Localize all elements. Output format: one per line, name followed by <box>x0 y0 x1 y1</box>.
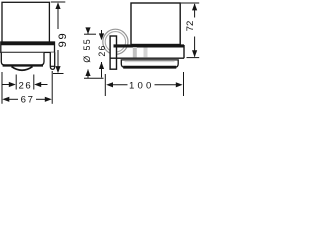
left extension line <box>1 72 3 104</box>
dim line <box>194 4 196 57</box>
svg-text:100: 100 <box>129 80 155 91</box>
right extension line <box>183 72 185 96</box>
arrow up <box>55 2 60 9</box>
right tail + arrow pointing left <box>41 84 48 86</box>
arrow down <box>55 66 60 73</box>
holder cup (front) <box>121 60 178 67</box>
svg-text:67: 67 <box>21 94 35 105</box>
pedestal arc under cup <box>12 67 33 71</box>
cup inner shadow line <box>125 61 175 63</box>
cup thick bottom edge <box>3 64 43 66</box>
svg-text:Ø 55: Ø 55 <box>82 38 92 63</box>
svg-text:26: 26 <box>97 44 107 56</box>
top extension line (glass top extended) <box>181 2 199 4</box>
glass tumbler side view <box>2 2 49 43</box>
arrow up <box>192 3 197 10</box>
band bottom line <box>110 57 185 59</box>
cup thick bottom edge <box>123 66 176 69</box>
dim line with gap for text <box>112 84 176 86</box>
band shading light <box>144 48 148 58</box>
right extension line <box>33 75 35 90</box>
bottom extension line <box>187 57 200 59</box>
band shading <box>133 47 137 57</box>
dim line <box>101 30 103 78</box>
band right edge <box>183 45 185 58</box>
arrow right <box>176 82 183 87</box>
top extension line <box>84 33 96 35</box>
arrow down <box>192 50 197 57</box>
left tail + arrow pointing right <box>2 84 9 86</box>
wall plate (side) <box>50 52 54 69</box>
arrow down (top, outside) <box>99 33 104 40</box>
holder band rim (front, seen through glass) <box>114 44 185 47</box>
svg-text:26: 26 <box>18 80 32 91</box>
dim line 67 with arrows outward <box>9 98 18 100</box>
glass tumbler front view <box>131 3 180 45</box>
top extension line <box>51 1 66 3</box>
bottom extension line <box>53 73 64 75</box>
mounting bracket bar <box>110 36 116 69</box>
bottom extension line <box>84 77 104 79</box>
dim line 99 <box>57 3 59 72</box>
arrow down to top ext <box>85 27 90 34</box>
arrow up from bottom <box>85 69 90 76</box>
left extension line <box>104 74 106 96</box>
arrow left <box>106 82 113 87</box>
holder ring band (side) <box>1 42 55 52</box>
svg-text:72: 72 <box>185 21 196 32</box>
wall plate bottom line <box>50 65 54 67</box>
svg-text:99: 99 <box>57 32 69 48</box>
holder cup below band <box>1 53 44 65</box>
dim line <box>87 28 89 78</box>
left extension line <box>15 75 17 90</box>
wall rosette circle (light, behind) <box>103 29 128 54</box>
right extension line <box>51 71 53 104</box>
arrow up (bottom, outside) <box>99 62 104 69</box>
